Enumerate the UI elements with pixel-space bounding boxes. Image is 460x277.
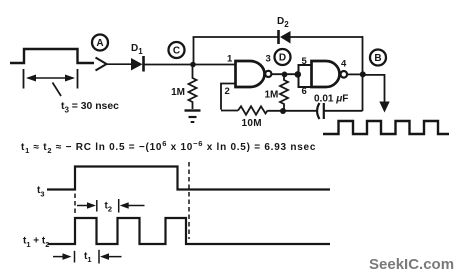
dimension arrow t3	[28, 77, 73, 79]
svg-text:SeekIC.com: SeekIC.com	[369, 256, 454, 273]
node D	[275, 49, 291, 65]
diode D2	[277, 30, 280, 44]
leader line	[53, 83, 62, 97]
svg-text:2: 2	[225, 86, 230, 97]
svg-text:C: C	[173, 46, 180, 57]
wire up to top rail	[193, 37, 195, 65]
output square wave	[323, 121, 449, 134]
t1 annotation	[53, 256, 69, 258]
pin 5 stub	[298, 64, 312, 66]
svg-text:10M: 10M	[242, 118, 262, 129]
resistor R1 1M	[189, 67, 197, 109]
svg-text:t1 ≈ t2 ≈ − RC ln 0.5 = −(106: t1 ≈ t2 ≈ − RC ln 0.5 = −(106 x 10−6 x l…	[21, 139, 316, 155]
node C	[169, 42, 185, 58]
wire	[107, 63, 132, 65]
tick right	[77, 69, 79, 89]
junction dot bottom	[280, 108, 286, 114]
junction dot node D	[282, 72, 288, 78]
svg-text:5: 5	[302, 56, 308, 67]
pin 6 stub	[298, 86, 312, 88]
svg-text:D: D	[279, 53, 286, 64]
svg-text:1M: 1M	[265, 90, 279, 101]
tick left	[23, 69, 25, 89]
t2 annotation	[77, 205, 93, 207]
svg-text:B: B	[374, 53, 381, 64]
pins 5/6 tie bar	[298, 65, 300, 88]
diode D1	[131, 58, 143, 71]
junction dot tie	[295, 71, 302, 78]
output bubble U2	[341, 71, 348, 78]
junction dot node B	[360, 71, 366, 77]
NAND gate U1	[236, 61, 265, 87]
svg-text:3: 3	[266, 54, 271, 65]
input pulse waveform	[10, 49, 94, 63]
bottom rail left	[221, 110, 238, 112]
svg-text:A: A	[96, 38, 103, 49]
bottom rail right	[324, 110, 363, 112]
dashed line left	[74, 194, 76, 216]
svg-text:4: 4	[341, 59, 347, 70]
t3 waveform	[47, 167, 330, 190]
wire to node B	[348, 73, 363, 75]
t1+t2 waveform	[48, 218, 330, 244]
svg-text:1: 1	[227, 54, 233, 65]
pin 2 wire	[221, 84, 236, 110]
junction node C dot	[190, 62, 196, 68]
node A	[92, 35, 108, 51]
resistor R2 1M	[280, 77, 288, 109]
svg-text:6: 6	[302, 86, 307, 97]
input chevron	[96, 58, 107, 71]
node D wire	[271, 73, 297, 75]
wire	[145, 64, 236, 66]
svg-text:1M: 1M	[171, 87, 185, 98]
output bubble U1	[265, 71, 271, 77]
node B	[370, 50, 386, 66]
resistor R3 10M	[238, 106, 268, 114]
top rail right	[291, 36, 363, 38]
output arrow	[363, 75, 385, 103]
bottom rail middle	[268, 110, 318, 112]
ground	[185, 109, 201, 111]
NAND gate U2	[312, 61, 340, 87]
dashed line right	[188, 162, 190, 239]
top rail left	[193, 36, 278, 38]
right vertical rail	[362, 36, 364, 111]
